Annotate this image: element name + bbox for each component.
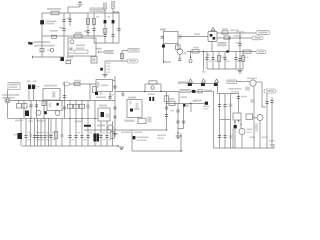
power flag VCC1 — [78, 1, 81, 3]
zener D3 — [112, 20, 115, 23]
wire x179 down — [178, 92, 180, 104]
label R2 — [84, 31, 88, 33]
junction VCC — [98, 51, 99, 52]
text row2 right — [204, 90, 212, 92]
wire string BL x101 — [100, 121, 102, 146]
capacitor CB2 — [211, 58, 214, 60]
wire bottom rail BL — [22, 145, 118, 147]
wire branch Z1 — [104, 9, 106, 43]
marks x206 — [207, 54, 210, 57]
junction rail B x95 — [94, 118, 95, 119]
marks x149 — [148, 117, 152, 123]
value CL4 — [39, 139, 42, 140]
capacitor C26 — [218, 105, 221, 107]
diode D1 — [40, 20, 44, 24]
net flag FB — [127, 59, 138, 63]
value CL6 — [46, 139, 49, 140]
wire filter to bridge — [178, 36, 208, 38]
capacitor C32 — [237, 97, 240, 99]
text NET2 — [106, 51, 112, 53]
wire string BL x62 — [61, 118, 63, 146]
wire mid BR — [167, 102, 206, 104]
optocoupler LED a — [28, 85, 31, 89]
text U3 name — [128, 97, 136, 99]
marks x230 b — [229, 135, 233, 139]
label box Q6 — [227, 80, 237, 83]
wire loop top — [145, 83, 161, 85]
primary box T1 — [74, 50, 88, 53]
label L1 — [75, 32, 82, 34]
text NTC line2 — [2, 97, 15, 99]
wire cap branch C3 — [69, 13, 71, 26]
text bloop c — [157, 135, 166, 137]
wire BR1 out bot — [217, 37, 252, 39]
wire string x18 — [18, 100, 20, 103]
label CL11 — [102, 132, 105, 133]
wire string x82 — [81, 100, 83, 146]
capacitor CX1 — [161, 36, 164, 38]
junction x238 low — [238, 120, 239, 121]
junction x190 — [190, 57, 191, 58]
label CB1 — [208, 61, 212, 62]
label R8 — [222, 28, 228, 30]
microphone MK1 inner — [6, 99, 8, 101]
wire x183 branch — [183, 103, 185, 128]
wire filter left down — [163, 44, 165, 63]
optocoupler LED b — [32, 85, 35, 89]
value CL82 — [83, 139, 86, 140]
net flag VM — [256, 50, 266, 54]
ground TR — [238, 71, 243, 74]
varistor RV1 — [40, 49, 44, 52]
wire x178 tail — [177, 129, 179, 136]
diode D10 — [183, 104, 185, 107]
wire u2 top stub — [113, 80, 116, 82]
tick bottom — [162, 61, 165, 63]
wire Q6 right — [256, 81, 262, 83]
transistor Q2 arrow — [100, 68, 103, 71]
text x250 val — [249, 137, 255, 139]
text below U3 — [125, 120, 135, 122]
resistor R28 — [198, 90, 202, 93]
text x191 — [192, 100, 197, 102]
text RT1 — [47, 50, 51, 52]
wire string x31 — [30, 100, 32, 118]
text bloop d — [157, 138, 164, 140]
label ML10 — [61, 134, 64, 137]
text T1 b — [76, 48, 84, 50]
gnd mark x203 — [202, 71, 206, 73]
wire r7 top — [122, 50, 128, 52]
wire x254 down — [253, 86, 255, 148]
wire rail A — [10, 99, 115, 101]
junction rail B x44 — [43, 118, 44, 119]
wire string BL x107 — [106, 121, 108, 146]
wire loop right v — [160, 84, 162, 92]
capacitor C12 — [29, 105, 32, 107]
capacitor CL76 — [74, 136, 77, 138]
capacitor CB4 — [223, 58, 226, 60]
label R9 — [234, 35, 242, 37]
wire string BL x26 — [25, 118, 27, 146]
wire mic down — [7, 90, 9, 98]
wire x213 down — [213, 91, 215, 148]
label R11 — [193, 47, 199, 49]
text x262 val — [262, 137, 268, 139]
wire string BL x112.5 — [112, 121, 114, 146]
wire bank TR x236 — [235, 52, 237, 69]
wire string BL x48.5 — [48, 118, 50, 146]
text VCC — [96, 48, 102, 50]
wire BR1 out top — [217, 32, 256, 34]
label RB6 — [245, 57, 249, 58]
wire string x95 — [94, 100, 96, 146]
capacitor C3 — [68, 20, 71, 22]
capacitor C15 — [63, 96, 66, 98]
wire rail BR end up — [273, 144, 275, 148]
text U3 pin — [134, 108, 140, 110]
bridge diode b — [213, 37, 216, 40]
label bank a — [96, 16, 100, 17]
transistor Q7 — [257, 115, 263, 121]
wire mic bottom — [7, 103, 9, 118]
relay contacts K1b — [47, 101, 62, 111]
capacitor CL4 — [36, 136, 39, 138]
resistor R14 — [22, 104, 27, 109]
wire string x24 — [23, 100, 25, 118]
wire bank TR x225 — [224, 52, 226, 69]
resistor R6 — [66, 61, 71, 64]
resistor RL9 — [54, 132, 57, 139]
wire stub bottom — [164, 61, 172, 63]
resistor R11 — [192, 50, 199, 53]
power flag PF2 — [202, 79, 206, 82]
wire bank feed — [217, 84, 219, 94]
ground BM — [113, 134, 118, 137]
ic U1 small — [91, 57, 97, 64]
pin col U3 b — [136, 103, 139, 109]
label opto b — [33, 81, 37, 83]
resistor R30 — [246, 114, 253, 120]
label C9 — [67, 53, 73, 55]
label opto c — [36, 86, 40, 87]
label CB2 — [214, 61, 218, 62]
wire diode row 1 — [187, 83, 218, 85]
text below U2 — [96, 96, 106, 98]
junction x240 — [239, 37, 240, 38]
text warn b — [231, 91, 239, 93]
wire R2 branch — [87, 13, 89, 36]
label D1 — [46, 21, 57, 23]
wire x90 branch — [89, 84, 91, 100]
marks below U2 — [100, 92, 103, 95]
text Q2 col a — [107, 63, 111, 64]
capacitor C34 — [270, 101, 273, 103]
marks Q11 — [184, 52, 187, 55]
wire string BL x37.5 — [37, 118, 39, 146]
text Q6 net — [228, 81, 236, 83]
text x254 marks — [251, 99, 254, 103]
capacitor CL5 — [39, 136, 42, 138]
diode D6 — [192, 90, 196, 93]
text NTC line1 — [2, 94, 19, 96]
junction rail B x70 — [69, 118, 70, 119]
label wire a — [230, 30, 239, 32]
text above Q6 — [247, 78, 257, 80]
transformer T1 — [68, 38, 96, 56]
wire string x70 — [69, 100, 71, 146]
junction x191 — [190, 103, 191, 104]
junction x235 — [234, 121, 235, 122]
marks x230 a — [229, 104, 233, 108]
resistor R27 — [138, 118, 146, 124]
label Q1 b — [66, 59, 72, 61]
label wire b — [236, 31, 244, 33]
resistor RB3 — [218, 56, 221, 62]
wire x115 main — [114, 76, 116, 130]
text K1b marks — [49, 103, 52, 108]
wire x241 down — [240, 120, 242, 128]
junction x181 — [180, 135, 181, 136]
text VP — [259, 32, 268, 34]
resistor R22 — [73, 104, 78, 108]
value CL5 — [42, 139, 45, 140]
resistor RB6 — [242, 56, 245, 62]
junction DR1 — [190, 83, 191, 84]
wire loop left v — [144, 84, 146, 92]
label CL6 — [46, 132, 49, 133]
label C1 — [67, 18, 72, 20]
label Q5 — [13, 134, 17, 136]
junction DR3 — [216, 83, 217, 84]
resistor R4 — [103, 29, 107, 34]
diode DR1 — [188, 83, 192, 86]
wire bank TR x207 — [206, 52, 208, 69]
wire string BL x21 — [20, 118, 22, 146]
wire vcc stub h — [68, 6, 80, 8]
label box NET4 — [218, 43, 226, 46]
ground TL — [103, 75, 108, 78]
wire string x88 — [87, 100, 89, 146]
resistor R31 — [176, 45, 181, 50]
microphone MK1 outer — [5, 98, 10, 103]
label CB4 — [226, 61, 230, 62]
label ML7 — [47, 134, 50, 137]
cap bank dark a — [93, 134, 96, 142]
label Q1 a — [66, 57, 73, 59]
wire string BL x45 — [44, 118, 46, 146]
tick node IN — [32, 56, 34, 58]
resistor R1 — [51, 11, 59, 15]
diode D9 — [205, 102, 208, 105]
wire rail BM — [115, 91, 179, 93]
pin marks U3 a — [129, 101, 131, 105]
regulator U5 — [169, 101, 175, 105]
wire string x76 — [75, 100, 77, 146]
transistor Q11 — [177, 49, 183, 55]
relay coil K1a — [43, 89, 60, 101]
text OUT3 — [266, 90, 274, 92]
transistor Q10 — [55, 111, 60, 116]
value CL3 — [36, 139, 39, 140]
capacitor CB5 — [234, 58, 237, 60]
label R19 — [74, 80, 81, 82]
label CB5 — [237, 61, 241, 62]
capacitor C5 — [92, 29, 95, 31]
label ML2 — [29, 134, 32, 137]
net label N2 — [111, 2, 114, 9]
text x113 — [110, 94, 114, 95]
wire mid rail TL — [42, 35, 103, 37]
wire x238 v — [238, 94, 240, 114]
net label OUT1 — [178, 82, 188, 84]
capacitor CL12 — [105, 136, 108, 138]
label CL3 — [36, 132, 39, 133]
wire x272 down — [271, 97, 273, 148]
text U4 marks — [106, 114, 110, 118]
text y99 mid — [194, 100, 202, 102]
wire R7 branch — [121, 51, 123, 62]
label D1 value — [46, 23, 55, 25]
value CL70 — [71, 139, 74, 140]
zener D2 — [104, 20, 107, 23]
wire x110 stub — [109, 92, 111, 101]
capacitor C23 — [176, 110, 179, 112]
text y120 b — [28, 120, 33, 122]
wire top rail TL — [42, 12, 119, 14]
wire string x44 — [43, 100, 45, 118]
text U2 — [101, 85, 108, 87]
diode DR3 — [214, 83, 218, 86]
dark text y124 — [84, 125, 91, 127]
wire x115 gnd — [114, 128, 116, 133]
junction x203 — [203, 51, 204, 52]
label CL88 — [89, 132, 92, 133]
transistor Q4 — [36, 110, 41, 115]
capacitor CL88 — [86, 136, 89, 138]
text y124 c — [97, 125, 105, 127]
wire y130 long — [84, 129, 118, 131]
junction x166 y103 — [166, 103, 167, 104]
resistor R20 — [93, 87, 97, 93]
value CL12 — [108, 139, 111, 140]
wire Q6 base — [237, 80, 251, 82]
thermistor RT1 — [50, 49, 53, 52]
wire branch D2 — [93, 13, 95, 43]
junction loop left — [144, 91, 145, 92]
text y120 c — [36, 120, 45, 122]
resistor R19 — [74, 82, 80, 85]
capacitor C16 — [113, 86, 116, 88]
inductor L1 — [74, 34, 82, 38]
capacitor C2 — [62, 29, 65, 31]
wire string BL x34.5 — [34, 118, 36, 146]
junction dark — [226, 50, 228, 52]
capacitor CL6 — [43, 136, 46, 138]
wire fb h — [105, 60, 127, 62]
earth symbol — [211, 28, 215, 31]
marks x123 — [121, 93, 125, 96]
test point TP1 — [189, 59, 192, 62]
junction x166 y130 — [166, 129, 167, 130]
capacitor C17 — [113, 107, 116, 109]
wire mid rail TR — [187, 51, 256, 53]
net flag IN2 — [63, 82, 70, 86]
resistor R21 — [67, 104, 72, 108]
net label N1 — [103, 3, 106, 9]
capacitor C13 — [35, 105, 38, 107]
wire stub x203 — [203, 52, 205, 71]
capacitor CL11 — [99, 136, 102, 138]
capacitor C1 — [62, 20, 65, 22]
text Q8 b — [247, 132, 252, 133]
crystal Y1 b — [152, 97, 154, 101]
text y131 a — [121, 132, 131, 134]
text above U5 — [168, 98, 175, 100]
resistor R23 — [79, 104, 84, 108]
text VN — [255, 37, 262, 39]
label CL12 — [108, 132, 111, 133]
capacitor C16b — [108, 96, 111, 98]
contact dot K1b — [57, 103, 59, 106]
label F1 — [194, 34, 200, 36]
wire Q11 down — [179, 54, 181, 58]
wire bank TR x243 — [242, 52, 244, 69]
value CL11 — [102, 139, 105, 140]
wire x178 branch — [177, 103, 179, 128]
resistor R2 — [86, 19, 89, 25]
text D9 b — [204, 108, 209, 109]
ic U3 — [127, 100, 142, 118]
wire branch x240 — [239, 33, 241, 52]
terminal box left — [42, 101, 46, 106]
text K1a marks — [52, 92, 56, 98]
wire y130 — [118, 129, 167, 131]
capacitor C15b — [63, 107, 66, 109]
label C2 — [59, 27, 63, 29]
junction DR2 — [203, 83, 204, 84]
capacitor C27 — [223, 105, 226, 107]
wire string x64 — [64, 82, 66, 118]
label opto a — [27, 81, 31, 83]
net flag VP — [256, 31, 270, 35]
polarized mark P1 — [133, 136, 136, 139]
text VM — [258, 51, 264, 53]
transistor Q5 arrow — [17, 133, 22, 139]
diode D8 on loop — [149, 81, 157, 84]
text NET3 — [130, 49, 138, 51]
wire corner top — [113, 11, 119, 13]
ic U2 — [96, 80, 113, 92]
thermistor tick — [28, 42, 30, 45]
label CL4 — [39, 132, 42, 133]
winding dot T1 — [70, 40, 74, 44]
junction rail B x82 — [81, 118, 82, 119]
wire x191 down — [190, 103, 192, 112]
bridge diode a — [210, 34, 213, 37]
wire bank TR x213 — [212, 52, 214, 69]
text y124 row — [75, 121, 83, 123]
diode DR2 — [201, 83, 205, 86]
wire x178 join — [178, 128, 184, 130]
label CL76 — [77, 132, 80, 133]
diode D7 — [234, 125, 237, 128]
capacitor C6 — [103, 35, 106, 37]
wire branch C8 — [118, 12, 120, 43]
capacitor C33 — [265, 102, 268, 104]
wire string BL x41 — [40, 118, 42, 146]
label box NET2 — [105, 50, 113, 53]
